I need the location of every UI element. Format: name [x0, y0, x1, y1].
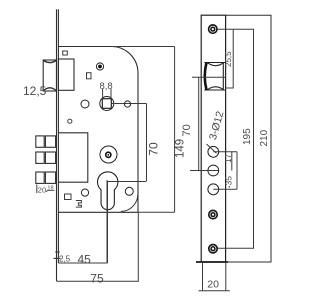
tick for 20 deadbolt label	[36, 185, 38, 194]
svg-text:45: 45	[78, 253, 92, 267]
leader line of 3-O12 label	[207, 144, 217, 153]
8,8 extension line left	[102, 89, 104, 99]
dimension 20 extension line left	[202, 262, 204, 291]
euro profile cylinder hole	[98, 172, 118, 210]
follower centre leader line	[112, 103, 147, 105]
faceplate back edge line (side view)	[57, 9, 59, 263]
dimension line 45 (backset)	[58, 180, 107, 263]
svg-text:210: 210	[259, 129, 270, 146]
faceplate outline (front view)	[201, 15, 225, 262]
dimension line 25,5	[225, 29, 233, 88]
deadbolt tail block	[58, 133, 87, 182]
small hole on leader	[124, 101, 130, 107]
faceplate bottom edge (thick)	[196, 261, 228, 263]
case hole mid-left	[81, 100, 89, 108]
svg-text:195: 195	[242, 128, 253, 145]
dimension line 149 with extensions	[112, 47, 175, 213]
svg-text:75: 75	[90, 271, 104, 285]
svg-text:18: 18	[47, 185, 53, 191]
spring clip detail	[76, 201, 82, 208]
bottom fixing screw	[209, 245, 217, 253]
cover plate corner arc	[121, 194, 138, 211]
rivet upper	[96, 63, 103, 70]
svg-text:35: 35	[224, 176, 234, 186]
middle fixing screw	[209, 210, 217, 218]
dimension line 75 (case depth)	[57, 212, 139, 281]
dimension line 210 with extensions	[226, 15, 271, 262]
2,5 thickness tick lower	[54, 257, 61, 259]
svg-text:12,5: 12,5	[23, 84, 47, 98]
dimension line 20 (faceplate width)	[199, 290, 230, 292]
case hole right of cylinder	[125, 187, 133, 195]
dimension line 35	[236, 152, 238, 190]
tiny hole above deadbolt tail	[68, 119, 72, 123]
comma after 35 label	[229, 186, 231, 188]
hole 2 of 3-O12	[208, 165, 219, 176]
cylinder centre vertical extension line	[107, 182, 109, 264]
svg-text:20: 20	[38, 185, 46, 194]
svg-text:17: 17	[224, 154, 233, 163]
svg-text:8,8: 8,8	[100, 81, 113, 92]
svg-text:25,5: 25,5	[224, 51, 233, 67]
dimension line 70 (side view)	[141, 104, 147, 182]
cylinder centre horizontal extension line	[108, 181, 147, 183]
latch cutout (front view)	[204, 63, 225, 91]
dot after 20 label	[46, 191, 47, 192]
svg-text:149: 149	[174, 139, 186, 158]
underline of 18 superscript	[47, 189, 55, 191]
latch bolt head	[43, 60, 56, 91]
small rect detail bottom-left	[65, 194, 72, 200]
svg-text:20: 20	[207, 279, 219, 291]
hole 3 centre tick	[213, 188, 237, 190]
dimension 20 extension line right	[225, 262, 227, 291]
spindle follower hole (8,8 square in circle)	[100, 97, 114, 111]
hole 3 of 3-O12	[208, 184, 219, 195]
8,8 extension line right	[110, 89, 112, 99]
centre hole with rivet	[100, 146, 117, 163]
small square detail top	[63, 51, 68, 55]
svg-text:70: 70	[181, 124, 193, 136]
small rectangular slot	[87, 73, 92, 79]
svg-text:70: 70	[147, 142, 161, 156]
latch bolt tail	[58, 59, 74, 90]
svg-text:2,5: 2,5	[59, 255, 71, 264]
faceplate front edge line (side view)	[56, 9, 58, 281]
hole 1 of 3-O12	[208, 146, 219, 157]
2,5 thickness tick upper	[55, 251, 59, 253]
latch centre line	[192, 76, 226, 78]
lock case outline with rounded top-right corner	[58, 47, 138, 213]
hole 1 centre tick	[213, 151, 237, 153]
case hole left of cylinder	[81, 189, 88, 196]
dimension line 70 (front view)	[198, 77, 200, 170]
hole 2 centre tick	[190, 170, 219, 172]
dimension line 195 with extensions	[218, 29, 254, 248]
deadbolt plates (3 rows of 2)	[36, 136, 56, 184]
top fixing screw	[209, 25, 217, 33]
dimension line 17	[231, 152, 233, 171]
